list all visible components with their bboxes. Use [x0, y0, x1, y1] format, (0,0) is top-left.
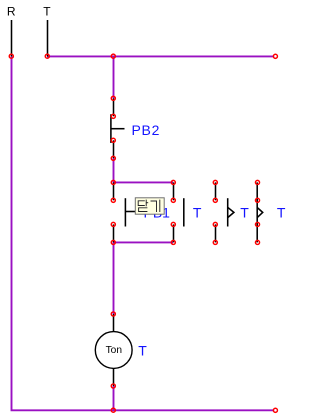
svg-text:PB2: PB2	[132, 122, 161, 138]
svg-text:T: T	[193, 204, 202, 220]
svg-text:T: T	[43, 5, 51, 19]
svg-text:T: T	[138, 343, 147, 359]
svg-text:R: R	[7, 5, 16, 19]
svg-text:Ton: Ton	[106, 345, 122, 356]
svg-text:T: T	[277, 204, 286, 220]
svg-text:T: T	[240, 204, 249, 220]
